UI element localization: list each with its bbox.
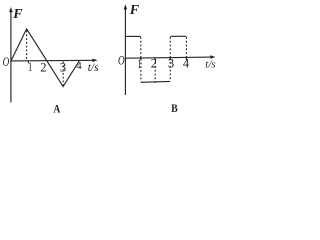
svg-text:O: O <box>118 53 125 68</box>
svg-text:1: 1 <box>28 60 32 74</box>
svg-text:2: 2 <box>40 61 46 75</box>
svg-text:4: 4 <box>76 61 82 72</box>
svg-text:1: 1 <box>138 57 142 71</box>
svg-text:t/s: t/s <box>88 62 99 74</box>
svg-text:F: F <box>12 7 23 22</box>
svg-text:3: 3 <box>60 61 66 75</box>
svg-text:3: 3 <box>168 56 174 70</box>
svg-text:2: 2 <box>151 57 157 71</box>
svg-text:F: F <box>129 3 140 18</box>
svg-text:4: 4 <box>183 56 190 70</box>
svg-text:t/s: t/s <box>205 59 215 71</box>
svg-text:O: O <box>3 54 10 69</box>
svg-text:B: B <box>171 103 178 115</box>
svg-text:A: A <box>53 103 61 115</box>
